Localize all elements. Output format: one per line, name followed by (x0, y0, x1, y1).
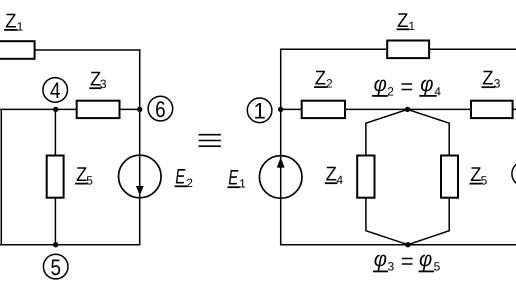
svg-text:4: 4 (50, 78, 61, 103)
node 6 label circle (148, 96, 173, 122)
resistor Z2 (right circuit) (302, 101, 345, 118)
resistor Z1 (right circuit) (387, 41, 429, 59)
label Z3 (right) (482, 68, 501, 91)
wire middle horizontal (left circuit) (0, 108, 140, 110)
resistor Z4 (right circuit) (357, 156, 374, 198)
resistor Z5 (right circuit) (441, 156, 458, 198)
svg-text:φ: φ (374, 248, 387, 271)
wire bottom horizontal (right circuit) (281, 244, 516, 246)
node 4 label circle (43, 78, 68, 104)
svg-text:5: 5 (50, 255, 61, 280)
label E1 (228, 167, 247, 191)
wire diagonal top-right to Z5 (408, 109, 450, 155)
label Z5 (right) (470, 164, 488, 187)
svg-text:1: 1 (239, 177, 246, 191)
label Z5 (left) (75, 164, 93, 187)
svg-text:6: 6 (155, 97, 166, 122)
junction node dot top center (phi2=phi4) (405, 107, 410, 112)
svg-text:φ: φ (420, 73, 433, 96)
svg-text:1: 1 (253, 99, 266, 124)
svg-text:Z: Z (326, 163, 337, 185)
svg-text:=: = (400, 74, 413, 99)
equivalence symbol (199, 135, 221, 147)
wire diagonal bottom-left from Z4 (366, 197, 408, 244)
svg-text:3: 3 (494, 77, 501, 91)
junction node dot at Z3 left (53, 107, 58, 112)
svg-text:=: = (401, 249, 414, 274)
resistor Z3 (left circuit) (77, 101, 120, 118)
svg-text:φ: φ (374, 73, 387, 96)
wire left vertical (right circuit) (280, 49, 282, 246)
resistor Z5 (left circuit) (47, 156, 64, 198)
svg-text:3: 3 (388, 260, 395, 274)
svg-text:2: 2 (326, 77, 333, 91)
wire middle horizontal (right circuit) (281, 108, 516, 110)
label Z1 (right) (397, 10, 416, 33)
svg-text:1: 1 (408, 19, 415, 33)
svg-text:4: 4 (336, 173, 343, 187)
junction node dot at Z3 right (137, 107, 142, 112)
resistor Z3 (right circuit) (471, 101, 513, 118)
wire diagonal bottom-right from Z5 (408, 197, 449, 244)
wire left vertical (left circuit) (0, 109, 2, 244)
label phi3 = phi5 (373, 248, 441, 274)
wire diagonal top-left to Z4 (366, 109, 408, 155)
junction node dot bottom center (phi3=phi5) (405, 242, 410, 247)
source E1 (right circuit) (259, 156, 302, 199)
junction node dot bottom (left circuit) (53, 242, 58, 247)
svg-text:2: 2 (186, 176, 193, 190)
label Z4 (325, 163, 344, 187)
wire Z5 vertical (left circuit) (54, 109, 56, 244)
label E2 (175, 166, 194, 190)
label Z3 (left) (89, 69, 107, 91)
svg-text:E: E (175, 166, 186, 189)
wire top left horizontal (35, 49, 141, 51)
label Z1 (left) (4, 11, 23, 34)
label Z2 (314, 68, 333, 91)
source (partial, right edge) (512, 162, 516, 187)
svg-text:1: 1 (17, 19, 24, 33)
svg-text:E: E (228, 167, 239, 190)
svg-text:2: 2 (387, 84, 394, 98)
source E2 (left circuit) (119, 155, 162, 198)
wire top horizontal (right circuit) (281, 48, 516, 50)
svg-text:φ: φ (419, 248, 432, 271)
svg-text:3: 3 (100, 77, 107, 91)
wire right vertical (left circuit) (139, 49, 141, 245)
node 5 label circle (43, 254, 68, 279)
resistor Z1 (left circuit) (0, 41, 35, 59)
node 1 label circle (247, 98, 272, 124)
svg-text:5: 5 (481, 173, 488, 187)
svg-text:4: 4 (434, 84, 441, 98)
svg-text:5: 5 (86, 173, 93, 187)
junction node dot at node 1 (278, 107, 283, 112)
svg-text:5: 5 (434, 260, 441, 274)
wire bottom horizontal (left circuit) (0, 244, 140, 246)
label phi2 = phi4 (372, 73, 441, 99)
